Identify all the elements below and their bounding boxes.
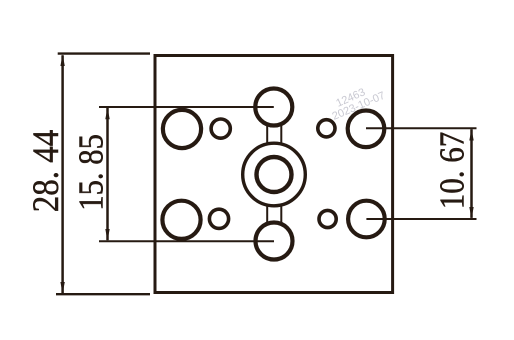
svg-text:15. 85: 15. 85 [73,134,111,211]
svg-text:10. 67: 10. 67 [434,132,472,210]
svg-text:28. 44: 28. 44 [25,129,66,212]
